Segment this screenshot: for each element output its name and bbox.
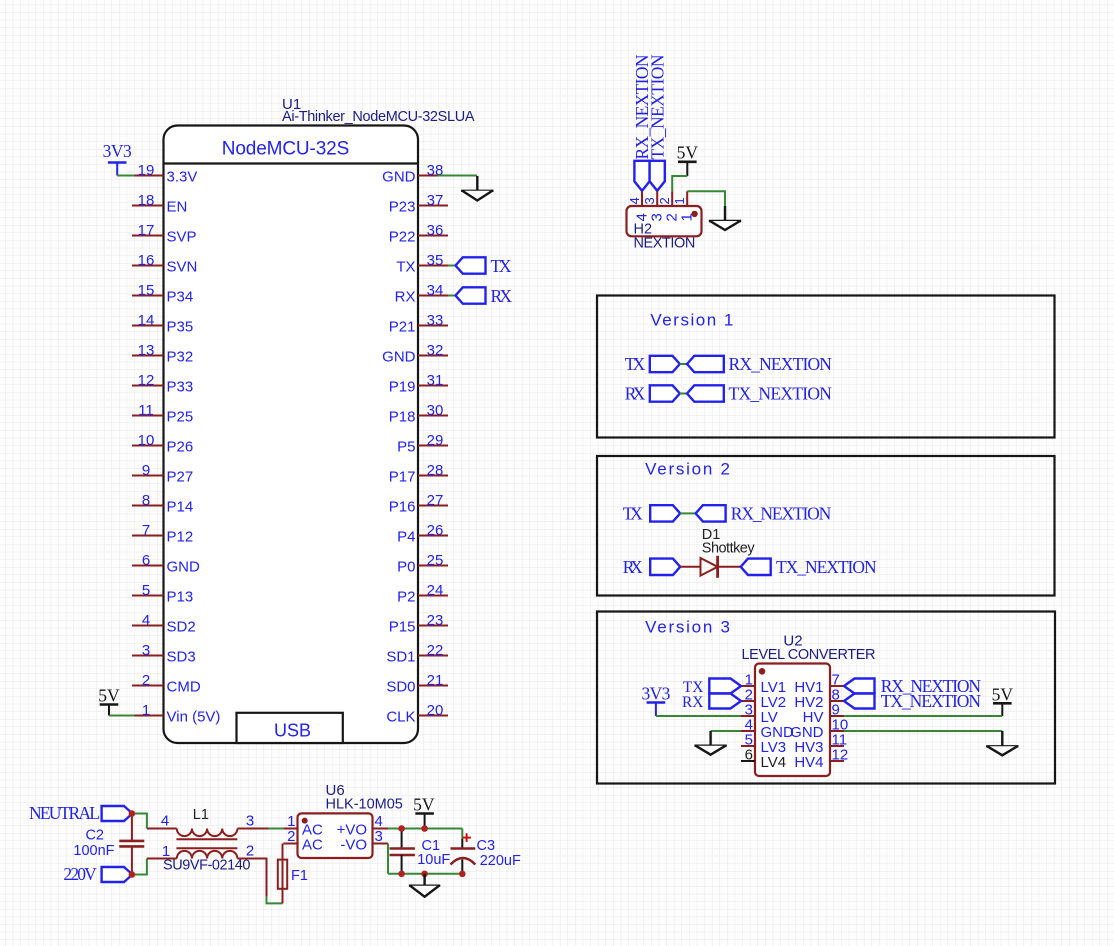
svg-text:3V3: 3V3 (103, 141, 132, 161)
U1 pin 34 (RX) (395, 282, 448, 306)
svg-text:CMD: CMD (167, 679, 201, 696)
Version 1 container box (597, 296, 1055, 438)
U1 pin 12 (P33) (132, 372, 193, 396)
power flag 5V (Version 3) (992, 685, 1014, 717)
U2 pin 12 (HV4) (794, 747, 848, 772)
svg-text:SVN: SVN (167, 259, 198, 276)
U1 pin 24 (P2) (397, 582, 448, 606)
wire (Version 1 TX row) (680, 363, 687, 365)
svg-text:Version 2: Version 2 (645, 460, 730, 479)
U1 pin 29 (P5) (397, 432, 448, 456)
junction 220V (129, 871, 136, 878)
svg-text:P18: P18 (389, 409, 416, 426)
svg-text:1: 1 (672, 197, 687, 204)
net flag TX_NEXTION pointing down at H2 pin 3 (650, 161, 665, 191)
ground at U2 right (986, 731, 1018, 755)
fuse F1 (278, 844, 308, 904)
svg-text:Shottkey: Shottkey (702, 541, 756, 557)
svg-text:5: 5 (142, 582, 150, 599)
svg-text:SVP: SVP (167, 229, 197, 246)
svg-text:P16: P16 (389, 499, 416, 516)
svg-text:220V: 220V (63, 864, 97, 884)
U1 pin 8 (P14) (132, 492, 193, 516)
U2 pin 4 (GND) (741, 717, 794, 742)
svg-text:TX_NEXTION: TX_NEXTION (729, 384, 833, 404)
U2 pin 11 (HV3) (794, 732, 847, 757)
svg-text:31: 31 (427, 372, 444, 389)
U6 pin 1 marker dot (302, 818, 308, 824)
wire U2 pin 4 (GND) to ground (711, 730, 741, 732)
U1 pin 21 (SD0) (386, 672, 448, 696)
svg-text:12: 12 (832, 747, 849, 764)
svg-text:P15: P15 (389, 619, 416, 636)
svg-text:AC: AC (302, 836, 323, 853)
net flag TX (Version 2) (623, 503, 681, 523)
junction ground stem (421, 871, 428, 878)
IC U1 NodeMCU-32S body (164, 126, 419, 744)
svg-text:10uF: 10uF (417, 852, 450, 868)
U1 pin 3 (SD3) (132, 642, 196, 666)
svg-text:P19: P19 (389, 379, 416, 396)
capacitor C1 10uF (390, 829, 451, 874)
connector H2 body (627, 206, 702, 236)
wire GND pin 38 (438, 175, 478, 177)
svg-text:NEUTRAL: NEUTRAL (29, 803, 100, 823)
svg-text:12: 12 (138, 372, 155, 389)
svg-text:Version 3: Version 3 (645, 618, 730, 637)
svg-text:P26: P26 (167, 439, 194, 456)
svg-text:RX_NEXTION: RX_NEXTION (729, 354, 833, 374)
svg-text:5V: 5V (677, 143, 699, 163)
wire 5V to pin 1 (109, 715, 135, 717)
svg-text:30: 30 (427, 402, 444, 419)
svg-text:18: 18 (138, 192, 155, 209)
svg-text:RX: RX (625, 384, 646, 404)
svg-text:34: 34 (427, 282, 444, 299)
net flag TX_NEXTION at U2 pin 8 (844, 691, 981, 711)
svg-text:9: 9 (142, 462, 150, 479)
svg-text:Version 1: Version 1 (650, 310, 733, 329)
net flag RX_NEXTION at U2 pin 7 (844, 676, 981, 696)
H2 pin 4 stub (627, 191, 642, 206)
U1 pin 25 (P0) (397, 552, 448, 576)
svg-text:L1: L1 (193, 807, 209, 823)
H2 pin 1 stub (672, 191, 687, 206)
U6 pin 2 (AC) (283, 828, 323, 853)
net flag TX at pin 35 (456, 256, 512, 276)
transformer L1 SU9VF-02140 (147, 807, 254, 873)
U1 pin 36 (P22) (389, 222, 448, 246)
H2 pin 2 stub (657, 191, 672, 206)
net flag TX_NEXTION (Version 1) (687, 384, 832, 404)
U1 pin 2 (CMD) (132, 672, 201, 696)
svg-text:P25: P25 (167, 409, 194, 426)
U1 pin 38 (GND) (382, 162, 448, 186)
svg-text:2: 2 (142, 672, 150, 689)
svg-text:TX_NEXTION: TX_NEXTION (881, 691, 982, 711)
svg-text:RX: RX (491, 286, 513, 306)
svg-text:HLK-10M05: HLK-10M05 (326, 797, 403, 813)
U1 pin 14 (P35) (132, 312, 193, 336)
net flag 220V (63, 864, 132, 884)
wire (Version 1 RX row) (680, 393, 687, 395)
svg-text:27: 27 (427, 492, 444, 509)
ground at U2 left (694, 731, 726, 755)
svg-text:Ai-Thinker_NodeMCU-32SLUA: Ai-Thinker_NodeMCU-32SLUA (282, 109, 475, 125)
svg-text:USB: USB (274, 720, 311, 740)
svg-text:P13: P13 (167, 589, 194, 606)
svg-text:TX: TX (623, 503, 643, 523)
svg-text:5V: 5V (413, 795, 435, 815)
U1 pin 26 (P4) (397, 522, 448, 546)
H2 pin 3 stub (642, 191, 657, 206)
wire +VO rail (388, 828, 462, 830)
svg-text:20: 20 (427, 702, 444, 719)
junction NEUTRAL (129, 810, 136, 817)
svg-text:-VO: -VO (340, 836, 367, 853)
wire L1 pin 3 to U6 pin 1 (237, 828, 283, 830)
junction 5V stem (421, 825, 428, 832)
svg-text:6: 6 (142, 552, 150, 569)
svg-text:P33: P33 (167, 379, 194, 396)
svg-text:25: 25 (427, 552, 444, 569)
svg-text:C3: C3 (477, 838, 496, 854)
wire RX to D1 anode (680, 566, 700, 568)
svg-text:37: 37 (427, 192, 444, 209)
svg-text:36: 36 (427, 222, 444, 239)
U1 pin 22 (SD1) (386, 642, 448, 666)
net flag RX_NEXTION (Version 1) (687, 354, 832, 374)
svg-text:P22: P22 (389, 229, 416, 246)
wire H2 pin 1 to ground (687, 191, 725, 206)
capacitor C3 220uF (polarized) (451, 833, 521, 874)
svg-text:22: 22 (427, 642, 444, 659)
net flag NEUTRAL (29, 803, 132, 823)
svg-text:4: 4 (161, 812, 169, 829)
junction C1 top (398, 825, 405, 832)
U2 pin 7 (HV1) (794, 672, 844, 697)
svg-text:HV4: HV4 (794, 754, 823, 771)
svg-text:13: 13 (138, 342, 155, 359)
level converter U2 body (755, 664, 830, 777)
wire L1 pin 2 to fuse F1 (237, 859, 282, 904)
svg-text:P4: P4 (397, 529, 415, 546)
svg-text:SD2: SD2 (167, 619, 196, 636)
U1 pin 5 (P13) (132, 582, 193, 606)
wire NEUTRAL to L1 pin 4 (132, 814, 147, 829)
ground at U1 pin 38 (461, 176, 493, 201)
power flag 5V (power section) (413, 795, 435, 829)
svg-text:10: 10 (138, 432, 155, 449)
svg-text:TX: TX (396, 259, 415, 276)
wire (Version 2 TX row) (680, 512, 695, 514)
net flag RX at U2 pin 2 (682, 694, 741, 712)
junction C1 bottom (398, 871, 405, 878)
H2 inner pin numbers (634, 213, 696, 221)
svg-text:SD1: SD1 (386, 649, 415, 666)
U2 pin 1 (LV1) (741, 672, 786, 697)
svg-text:3.3V: 3.3V (167, 169, 198, 186)
net flag RX_NEXTION pointing down at H2 pin 4 (634, 161, 649, 191)
net flag TX (Version 1) (625, 354, 680, 374)
svg-text:2: 2 (657, 197, 672, 204)
svg-text:RX: RX (395, 289, 416, 306)
wire U2 pin 9 (HV) to 5V (844, 715, 1002, 717)
svg-text:3: 3 (375, 828, 383, 845)
svg-text:14: 14 (138, 312, 155, 329)
svg-text:23: 23 (427, 612, 444, 629)
svg-text:TX_NEXTION: TX_NEXTION (776, 557, 877, 577)
svg-text:CLK: CLK (386, 709, 415, 726)
U1 pin 16 (SVN) (132, 252, 197, 276)
U2 pin 3 (LV) (741, 702, 778, 727)
svg-text:P14: P14 (167, 499, 194, 516)
svg-text:NEXTION: NEXTION (634, 236, 696, 252)
svg-text:NodeMCU-32S: NodeMCU-32S (222, 139, 350, 160)
net flag RX_NEXTION (Version 2) (696, 503, 832, 523)
svg-text:16: 16 (138, 252, 155, 269)
svg-text:LEVEL CONVERTER: LEVEL CONVERTER (742, 647, 876, 663)
power flag 5V at U1 pin 1 (98, 686, 120, 716)
svg-text:100nF: 100nF (73, 843, 114, 859)
svg-text:C2: C2 (85, 827, 104, 843)
U2 pin 8 (HV2) (794, 687, 844, 712)
power flag 5V at H2 (677, 143, 699, 177)
U1 pin 35 (TX) (396, 252, 448, 276)
svg-text:P27: P27 (167, 469, 194, 486)
U1 pin 13 (P32) (132, 342, 193, 366)
svg-text:7: 7 (142, 522, 150, 539)
svg-text:4: 4 (627, 197, 642, 204)
U1 pin 18 (EN) (132, 192, 187, 216)
svg-text:P5: P5 (397, 439, 415, 456)
U2 pin 10 (GND) (790, 717, 848, 742)
net flag RX (Version 1) (625, 384, 680, 404)
wire 220V to L1 pin 1 (132, 859, 147, 875)
svg-text:SU9VF-02140: SU9VF-02140 (163, 857, 251, 873)
svg-text:EN: EN (167, 199, 188, 216)
U1 pin 28 (P17) (389, 462, 448, 486)
U2 pin 1 marker dot (759, 668, 766, 675)
net flag TX_NEXTION (Version 2) (741, 557, 877, 577)
svg-text:21: 21 (427, 672, 444, 689)
U1 pin 23 (P15) (389, 612, 448, 636)
svg-text:5V: 5V (992, 685, 1014, 705)
U1 pin 6 (GND) (132, 552, 200, 576)
svg-text:220uF: 220uF (480, 853, 521, 869)
svg-text:3: 3 (642, 197, 657, 204)
U6 pin 1 (AC) (283, 813, 323, 838)
svg-text:P21: P21 (389, 319, 416, 336)
svg-text:GND: GND (167, 559, 201, 576)
U1 pin 10 (P26) (132, 432, 193, 456)
U1 pin 31 (P19) (389, 372, 448, 396)
junction C3 bottom (459, 871, 466, 878)
svg-text:28: 28 (427, 462, 444, 479)
svg-text:8: 8 (142, 492, 150, 509)
U1 pin 30 (P18) (389, 402, 448, 426)
svg-text:P0: P0 (397, 559, 415, 576)
svg-text:4: 4 (142, 612, 150, 629)
U6 pin 3 (-VO) (340, 828, 388, 853)
wire pin 35 to TX flag (448, 265, 456, 267)
svg-text:P2: P2 (397, 589, 415, 606)
U6 pin 4 (+VO) (337, 813, 388, 838)
svg-text:3: 3 (246, 812, 254, 829)
U1 pin 11 (P25) (132, 402, 193, 426)
svg-text:P34: P34 (167, 289, 194, 306)
wire ground rail (388, 873, 462, 875)
svg-text:GND: GND (382, 169, 416, 186)
svg-text:P32: P32 (167, 349, 194, 366)
svg-text:26: 26 (427, 522, 444, 539)
svg-text:P35: P35 (167, 319, 194, 336)
svg-text:11: 11 (138, 402, 154, 419)
ground at H2 (709, 206, 741, 230)
svg-text:17: 17 (138, 222, 155, 239)
U1 pin 1 (Vin (5V)) (132, 702, 220, 726)
svg-text:3: 3 (142, 642, 150, 659)
diode D1 Shottkey (701, 527, 756, 578)
wire D1 cathode to TX_NEXTION (718, 566, 741, 568)
net flag RX (Version 2) (623, 557, 681, 577)
svg-text:1: 1 (142, 702, 150, 719)
svg-text:TX: TX (625, 354, 646, 374)
Version 2 container box (597, 456, 1055, 596)
svg-text:35: 35 (427, 252, 444, 269)
power flag 3V3 (Version 3) (641, 684, 670, 717)
power module U6 body (298, 813, 373, 858)
U1 pin 7 (P12) (132, 522, 193, 546)
U1 pin 17 (SVP) (132, 222, 197, 246)
Version 3 container box (597, 612, 1055, 784)
U2 pin 5 (LV3) (741, 732, 786, 757)
ground at power section (409, 874, 440, 897)
U2 pin 2 (LV2) (741, 687, 786, 712)
svg-text:6: 6 (745, 747, 753, 764)
svg-text:GND: GND (382, 349, 416, 366)
U1 pin 33 (P21) (389, 312, 448, 336)
U1 pin 27 (P16) (389, 492, 448, 516)
H2 pin 1 marker dot (691, 211, 697, 217)
svg-text:Vin (5V): Vin (5V) (167, 709, 221, 726)
svg-text:TX_NEXTION: TX_NEXTION (647, 54, 667, 159)
wire U2 pin 10 (GND) to ground (844, 730, 1002, 732)
svg-text:P23: P23 (389, 199, 416, 216)
svg-text:SD3: SD3 (167, 649, 196, 666)
U1 pin 20 (CLK) (386, 702, 448, 726)
U2 pin 9 (HV) (803, 702, 844, 727)
svg-text:32: 32 (427, 342, 444, 359)
svg-text:SD0: SD0 (386, 679, 415, 696)
U1 pin 15 (P34) (132, 282, 193, 306)
svg-text:5V: 5V (98, 686, 120, 706)
svg-text:3V3: 3V3 (641, 684, 670, 704)
svg-text:LV4: LV4 (761, 754, 787, 771)
wire +VO to C3 (461, 829, 463, 840)
U1 pin 19 (3.3V) (132, 162, 197, 186)
U1 pin 9 (P27) (132, 462, 193, 486)
wire 3V3 to U2 pin 3 (LV) (656, 715, 741, 717)
net flag RX at pin 34 (456, 286, 513, 306)
svg-text:RX: RX (682, 694, 704, 711)
U1 pin 4 (SD2) (132, 612, 196, 636)
svg-text:P12: P12 (167, 529, 194, 546)
U1 USB connector box (237, 713, 343, 743)
capacitor C2 100nF (73, 814, 144, 875)
svg-text:33: 33 (427, 312, 444, 329)
U1 pin 37 (P23) (389, 192, 448, 216)
svg-text:15: 15 (138, 282, 155, 299)
wire -VO down (387, 844, 389, 874)
wire 3V3 to pin 19 (117, 175, 134, 177)
svg-text:RX: RX (623, 557, 643, 577)
power flag 3V3 at U1 pin 19 (103, 141, 132, 176)
svg-text:24: 24 (427, 582, 444, 599)
svg-text:TX: TX (491, 256, 512, 276)
svg-text:2: 2 (287, 828, 295, 845)
svg-text:29: 29 (427, 432, 444, 449)
svg-text:P17: P17 (389, 469, 416, 486)
net flag TX at U2 pin 1 (683, 679, 741, 697)
U2 pin 6 (LV4) (741, 747, 786, 772)
U1 pin 32 (GND) (382, 342, 448, 366)
svg-text:F1: F1 (291, 868, 308, 884)
wire 5V to H2 pin 2 (672, 176, 687, 191)
wire pin 34 to RX flag (448, 295, 456, 297)
svg-text:RX_NEXTION: RX_NEXTION (731, 503, 832, 523)
svg-text:19: 19 (138, 162, 155, 179)
